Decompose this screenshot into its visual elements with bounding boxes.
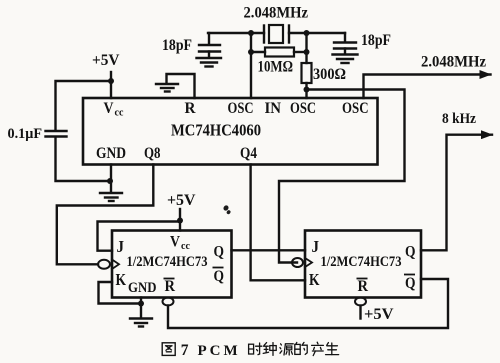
wire GND pin to ground	[110, 165, 112, 193]
caption hanzi tu	[162, 343, 175, 356]
wire K loop to GND node	[99, 282, 142, 304]
svg-text:Q: Q	[214, 244, 225, 261]
svg-text:K: K	[116, 270, 127, 289]
caption hanzi de	[295, 342, 307, 354]
ground G3	[130, 319, 152, 327]
svg-text:+5V: +5V	[92, 52, 120, 69]
node dot	[304, 49, 310, 55]
reset bubble FF2	[355, 298, 366, 306]
wire J loop to +5V node	[98, 222, 181, 251]
node dot	[304, 87, 310, 93]
node dot	[177, 218, 183, 224]
wire 8kHz arrow from Q of FF2	[421, 135, 492, 251]
svg-text:Q8: Q8	[144, 145, 161, 162]
wire OSC IN pin vertical	[250, 33, 252, 98]
caption hanzi sheng	[326, 343, 339, 355]
capacitor C1 18pF left	[197, 33, 222, 67]
svg-text:OSC: OSC	[290, 100, 316, 117]
flip-flop U2 1/2MC74HC73 box	[112, 231, 232, 298]
svg-text:18pF: 18pF	[162, 37, 192, 54]
svg-text:Q: Q	[405, 275, 416, 292]
caption hanzi yuan	[280, 344, 293, 355]
svg-text:IN: IN	[265, 100, 282, 117]
ground G2	[100, 193, 122, 201]
svg-text:K: K	[309, 270, 320, 289]
caption hanzi shi	[249, 343, 262, 355]
svg-text:18pF: 18pF	[361, 32, 391, 49]
svg-text:cc: cc	[181, 241, 190, 252]
wire C3 bottom to GND net	[56, 137, 112, 181]
caption hanzi chan	[312, 342, 324, 355]
svg-text:8 kHz: 8 kHz	[442, 111, 476, 127]
capacitor C3 0.1uF	[46, 131, 67, 137]
crystal X1 2.048MHz	[264, 25, 289, 43]
svg-text:2.048MHz: 2.048MHz	[244, 5, 309, 22]
svg-text:Q: Q	[405, 244, 416, 261]
flip-flop U3 1/2MC74HC73 box	[305, 231, 421, 298]
svg-text:0.1μF: 0.1μF	[8, 126, 43, 142]
FF2 labels	[309, 237, 416, 295]
node dot	[107, 178, 113, 184]
wire crystal left to C1	[208, 32, 264, 34]
caption hanzi zhong	[263, 343, 276, 356]
wire R pin ground	[167, 74, 195, 98]
svg-text:R: R	[185, 100, 197, 117]
IC pin labels	[96, 100, 369, 162]
node dot	[248, 49, 254, 55]
svg-text:Q4: Q4	[240, 145, 257, 162]
svg-text:GND: GND	[128, 280, 157, 296]
svg-text:OSC: OSC	[342, 100, 369, 117]
wire Q4 to FF2 K input	[251, 165, 305, 281]
wire crystal right to node B	[289, 32, 345, 34]
node dot	[108, 78, 114, 84]
svg-text:GND: GND	[96, 145, 126, 162]
IC U1 MC74HC4060 box	[83, 98, 378, 165]
svg-text:R: R	[358, 278, 369, 295]
clock bubble FF2	[292, 258, 312, 267]
node dot	[138, 301, 144, 307]
svg-text:MC74HC4060: MC74HC4060	[171, 121, 261, 140]
node dot	[304, 30, 310, 36]
ink blot speck	[222, 204, 231, 215]
FF1 labels	[116, 234, 225, 297]
svg-text:V: V	[104, 100, 115, 117]
svg-text:J: J	[312, 237, 320, 256]
wire OSC out pin to 2.048MHz arrow	[364, 75, 491, 99]
svg-text:cc: cc	[115, 108, 124, 119]
svg-text:R: R	[165, 278, 176, 295]
wire node C to FF2 clock branch	[279, 90, 405, 263]
node dot	[248, 30, 254, 36]
wire Q of FF1 to J of FF2	[232, 249, 306, 251]
wire +5V stub to FF1 Vcc	[179, 209, 181, 231]
ground G1	[156, 84, 178, 92]
svg-text:7: 7	[181, 342, 189, 359]
resistor R2 300 ohm with node wire	[302, 33, 312, 98]
wire +5V to Vcc pin	[110, 72, 112, 98]
clock bubble FF1	[98, 260, 119, 270]
capacitor C2 18pF right	[333, 33, 358, 63]
svg-text:OSC: OSC	[228, 100, 254, 117]
resistor R1 10M ohm	[251, 48, 307, 57]
caption figure 7	[181, 342, 241, 359]
svg-text:1/2MC74HC73: 1/2MC74HC73	[321, 254, 402, 270]
svg-text:J: J	[117, 237, 125, 256]
svg-text:+5V: +5V	[364, 306, 394, 323]
svg-text:V: V	[170, 234, 181, 251]
svg-text:1/2MC74HC73: 1/2MC74HC73	[127, 254, 208, 270]
svg-text:Q: Q	[214, 268, 225, 285]
reset bubble FF1	[163, 298, 174, 306]
svg-text:PCM: PCM	[198, 343, 241, 359]
wire FF1 reset to FF2 Qbar	[168, 279, 448, 328]
wire FF2 reset to +5V	[359, 306, 361, 319]
wire Q8 to FF1 clock	[57, 165, 154, 265]
svg-text:300Ω: 300Ω	[313, 66, 346, 83]
svg-text:10MΩ: 10MΩ	[258, 59, 294, 76]
wire +5V branch to C3	[56, 81, 112, 131]
wire FF1 GND pin to ground	[140, 298, 142, 318]
svg-text:2.048MHz: 2.048MHz	[421, 54, 486, 71]
svg-text:+5V: +5V	[167, 192, 196, 209]
